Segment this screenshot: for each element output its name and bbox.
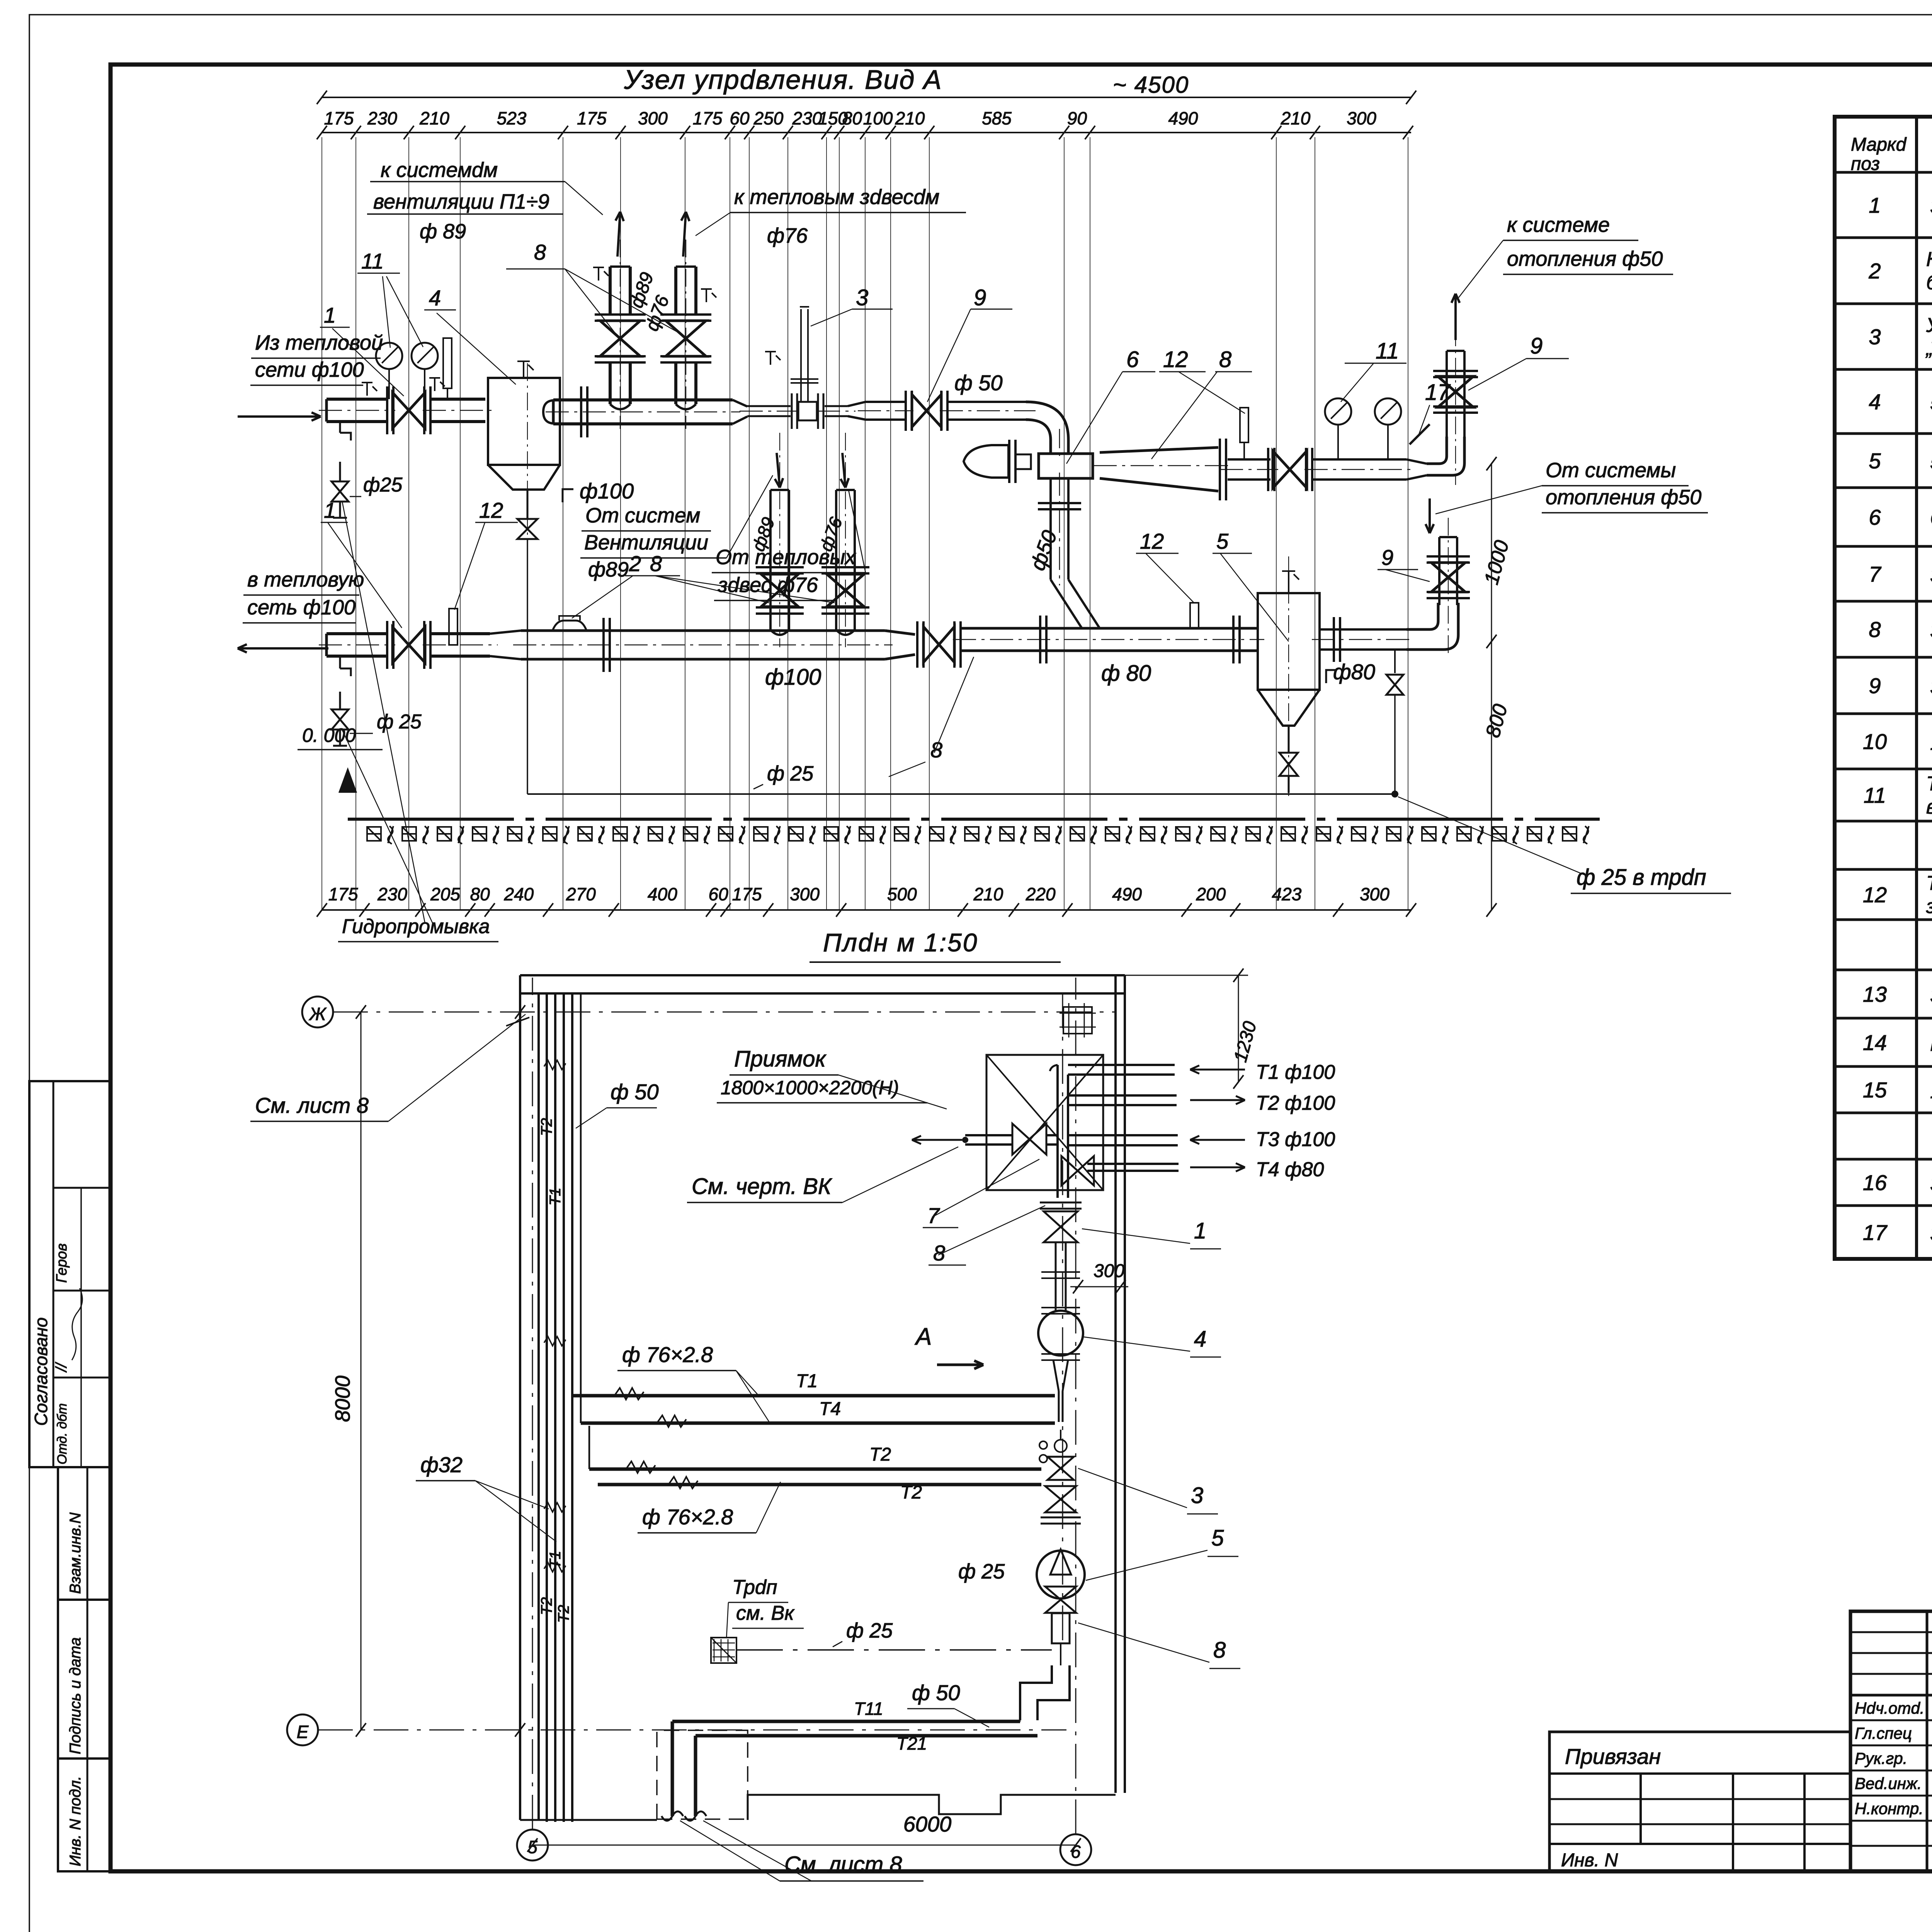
lower pipe left stub: [325, 634, 328, 656]
f25 drain line: [527, 793, 1395, 795]
svg-text:1: 1: [1194, 1218, 1206, 1243]
pipe with gauges: [1312, 458, 1406, 461]
regulator tee poz3: [791, 393, 793, 429]
svg-text:30ч 6бр: 30ч 6бр: [1930, 563, 1932, 587]
svg-text:175: 175: [732, 884, 762, 904]
svg-text:ф 50: ф 50: [611, 1080, 659, 1104]
valve poz9 upper: [905, 391, 907, 431]
thin pipe f50 after cone: [747, 405, 791, 407]
svg-text:15кч 18п: 15кч 18п: [1930, 731, 1932, 755]
svg-text:ф 80: ф 80: [1101, 661, 1151, 686]
svg-text:175: 175: [577, 108, 607, 128]
svg-text:1: 1: [324, 303, 336, 327]
upper dimension ticks and numbers: [317, 126, 327, 139]
lower thermometer pocket poz12: [449, 609, 457, 645]
T pipes horizontal T4: [581, 1422, 1055, 1425]
right elbow up: [1427, 437, 1447, 464]
svg-text:ГОСТ 3029-75: ГОСТ 3029-75: [1930, 1032, 1932, 1056]
svg-text:30ч 6бр: 30ч 6бр: [1930, 619, 1932, 643]
svg-text:Веd.инж.: Веd.инж.: [1855, 1774, 1922, 1793]
axis Zh line: [333, 1012, 1117, 1013]
svg-text:16: 16: [1863, 1170, 1887, 1195]
svg-text:Т2: Т2: [538, 1597, 555, 1615]
svg-text:11: 11: [1376, 338, 1399, 364]
svg-text:См. проект dвтомdтики: См. проект dвтомdтики: [1930, 506, 1932, 530]
svg-text:5.903 - 13 в.5: 5.903 - 13 в.5: [1930, 450, 1932, 474]
svg-text:Термометровый: Термометровый: [1926, 872, 1932, 895]
chain valve A poz7: [1012, 1124, 1046, 1155]
arrow up to heating system: [1454, 294, 1457, 340]
pipe after mud trap: [1320, 628, 1406, 631]
f25 line plan: [736, 1649, 1052, 1651]
thermometer dots: [1039, 1441, 1047, 1449]
gauge cocks: [366, 383, 368, 396]
svg-text:Т11: Т11: [854, 1699, 883, 1719]
mud trap 1 drain valve: [517, 519, 537, 539]
svg-text:Н.контр.: Н.контр.: [1855, 1799, 1923, 1818]
svg-text:230: 230: [367, 108, 397, 128]
svg-text:Т2: Т2: [555, 1605, 572, 1623]
chain cone below meter: [1053, 1360, 1068, 1391]
svg-text:см. Вк: см. Вк: [736, 1602, 795, 1624]
upper dimension chain line: [322, 132, 1411, 133]
dim 8000 vertical: [361, 1012, 362, 1730]
axis 5 circle: [517, 1830, 548, 1861]
regulator stem: [800, 309, 802, 402]
svg-text:Т1 ф100: Т1 ф100: [1256, 1061, 1335, 1083]
svg-text:См. черт. ВК: См. черт. ВК: [692, 1174, 832, 1199]
svg-text:ф80: ф80: [1333, 660, 1375, 684]
upper pipe flange pair left: [386, 386, 388, 434]
stamp column upper block: [29, 1081, 111, 1467]
plan elbow to T11/T21: [1020, 1665, 1052, 1720]
expander cone f50: [848, 402, 866, 420]
svg-text:отопления ф50: отопления ф50: [1507, 247, 1663, 270]
lower cone to f80: [885, 631, 915, 659]
chain top piping: [1056, 1065, 1059, 1198]
riser up 2 (to heat curtains): [674, 362, 677, 404]
stamp column lower block: [58, 1467, 111, 1871]
svg-text:300: 300: [1347, 108, 1376, 128]
svg-text:ф 25: ф 25: [958, 1560, 1005, 1583]
svg-text:ф32: ф32: [420, 1452, 463, 1477]
svg-text:17: 17: [1863, 1220, 1888, 1245]
svg-text:Ж: Ж: [309, 1004, 327, 1024]
svg-text:8: 8: [650, 551, 662, 576]
T pipes horizontal T1: [572, 1394, 1055, 1398]
mud trap 1 funnel: [488, 465, 560, 490]
svg-text:ф 89: ф 89: [420, 220, 466, 243]
svg-text:5: 5: [1216, 529, 1229, 553]
overall dim line: [322, 97, 1411, 98]
svg-text:1800×1000×2200(Н): 1800×1000×2200(Н): [721, 1077, 899, 1099]
svg-text:Т2 ф100: Т2 ф100: [1256, 1092, 1335, 1114]
chain filter poz5: [1037, 1551, 1085, 1599]
left outlet stub arrow: [912, 1139, 962, 1141]
T pipes horizontal T2a: [589, 1468, 1041, 1471]
svg-text://: //: [53, 1362, 70, 1373]
svg-text:Т2: Т2: [900, 1482, 922, 1503]
svg-text:7: 7: [1869, 562, 1881, 586]
svg-text:3к45.87. Уст-2: 3к45.87. Уст-2: [1930, 1221, 1932, 1245]
svg-text:200: 200: [1196, 884, 1226, 904]
svg-text:175: 175: [324, 108, 354, 128]
pit rectangle with cross: [986, 1055, 1103, 1190]
svg-text:к системе: к системе: [1507, 213, 1610, 236]
axis 6 line: [1075, 978, 1077, 1834]
svg-text:9: 9: [1381, 545, 1393, 570]
svg-text:100: 100: [863, 108, 893, 128]
svg-text:13: 13: [1863, 982, 1887, 1007]
svg-text:ф 50: ф 50: [912, 1680, 960, 1705]
svg-text:См. лист 8: См. лист 8: [255, 1093, 369, 1117]
bundle compensators: [544, 1060, 566, 1070]
room bottom wall: [539, 1795, 1116, 1820]
break squiggles: [662, 1811, 683, 1821]
svg-text:Т2: Т2: [538, 1118, 555, 1136]
svg-text:ф76: ф76: [767, 224, 808, 247]
svg-text:8: 8: [1219, 347, 1231, 372]
chain valve B poz8: [1061, 1156, 1094, 1185]
svg-text:250: 250: [753, 108, 784, 128]
floor line: [348, 818, 1600, 821]
gauge 3: [1325, 398, 1351, 425]
lower valve poz7: [916, 621, 918, 668]
svg-text:11: 11: [1864, 783, 1886, 808]
svg-text:7: 7: [927, 1203, 940, 1228]
svg-text:1: 1: [324, 498, 336, 522]
big expanding cone: [1100, 447, 1218, 491]
heating riser: [1446, 351, 1448, 439]
cone manifold to f50: [733, 400, 747, 424]
T11 T21 verticals down: [671, 1721, 674, 1816]
svg-text:вый зdвод: вый зdвод: [1926, 796, 1932, 818]
svg-text:Улdн- Уdенский з-d: Улdн- Уdенский з-d: [1926, 314, 1932, 337]
svg-text:12: 12: [479, 498, 503, 522]
svg-text:Узел упрdвления. Вид А: Узел упрdвления. Вид А: [624, 65, 942, 95]
svg-text:6000: 6000: [903, 1812, 952, 1836]
svg-text:Т4 ф80: Т4 ф80: [1256, 1158, 1324, 1181]
svg-text:зdвод г. Клин: зdвод г. Клин: [1926, 895, 1932, 918]
svg-text:Т1: Т1: [547, 1551, 564, 1569]
riser chain centerline: [1062, 993, 1063, 1642]
svg-text:Е: Е: [297, 1722, 309, 1742]
svg-text:ф89: ф89: [588, 558, 629, 581]
svg-text:ф 25: ф 25: [846, 1619, 893, 1642]
svg-text:8: 8: [1213, 1638, 1226, 1663]
svg-text:14: 14: [1863, 1031, 1887, 1055]
mud trap 2 poz5 body: [1258, 593, 1320, 690]
svg-text:Т4: Т4: [819, 1399, 841, 1419]
svg-text:60: 60: [730, 108, 750, 128]
drain valve under mid pipe: [1394, 651, 1396, 673]
svg-text:Т3 ф100: Т3 ф100: [1256, 1128, 1335, 1151]
T stubs to right T2: [1068, 1094, 1177, 1097]
regulator side cock: [770, 352, 771, 365]
extension lines: [321, 137, 322, 910]
svg-text:Плdн м 1:50: Плdн м 1:50: [823, 928, 978, 957]
svg-text:Взам.инв.N: Взам.инв.N: [67, 1512, 84, 1594]
svg-text:300: 300: [790, 884, 820, 904]
mid lower pipe f80: [961, 627, 1257, 630]
svg-text:210: 210: [973, 884, 1003, 904]
svg-text:423: 423: [1272, 884, 1302, 904]
svg-text:8: 8: [1869, 617, 1881, 642]
svg-text:сеть ф100: сеть ф100: [247, 596, 355, 619]
svg-text:2: 2: [1868, 259, 1881, 283]
svg-text:От системы: От системы: [1546, 459, 1676, 482]
manifold flange pair: [580, 386, 582, 437]
svg-text:2: 2: [629, 551, 641, 576]
arrow down from heating: [1429, 498, 1431, 533]
svg-text:~ 4500: ~ 4500: [1113, 72, 1189, 98]
room left wall: [519, 975, 521, 1820]
svg-text:к системdм: к системdм: [381, 158, 498, 182]
lower valve poz1b: [393, 627, 425, 663]
svg-text:От тепловых: От тепловых: [716, 546, 856, 569]
upper thermometer pocket: [443, 338, 452, 388]
chain flanges upper: [1040, 1202, 1082, 1204]
svg-text:80: 80: [842, 108, 862, 128]
poz17 union tick: [1410, 424, 1430, 444]
down riser 2 arrow: [842, 453, 845, 488]
svg-text:ф 76×2.8: ф 76×2.8: [622, 1342, 713, 1367]
svg-text:зdвес ф76: зdвес ф76: [718, 573, 818, 597]
svg-text:ф 25 в трdп: ф 25 в трdп: [1577, 865, 1706, 890]
svg-text:585: 585: [982, 108, 1012, 128]
svg-text:Маркd: Маркd: [1851, 134, 1907, 155]
svg-text:вентиляции П1÷9: вентиляции П1÷9: [373, 190, 549, 213]
mud trap 2 funnel: [1258, 690, 1320, 726]
chain pipe to meter: [1055, 1242, 1057, 1312]
svg-text:4: 4: [1869, 389, 1881, 414]
svg-text:300: 300: [1360, 884, 1389, 904]
privyazan table: [1549, 1732, 1850, 1871]
svg-text:4: 4: [429, 286, 441, 310]
svg-text:5: 5: [1869, 449, 1881, 473]
svg-text:ф 25: ф 25: [377, 711, 422, 733]
T pipes horizontal T2b: [598, 1483, 1041, 1486]
water meter circle poz4: [1038, 1311, 1083, 1355]
T stubs to right T3: [1068, 1134, 1178, 1136]
svg-text:Вентиляции: Вентиляции: [584, 531, 708, 554]
drain pipe to f25 line: [527, 539, 528, 794]
svg-text:60: 60: [709, 884, 729, 904]
svg-text:8000: 8000: [331, 1376, 354, 1422]
svg-text:Т21: Т21: [896, 1733, 927, 1753]
upper valve poz1: [393, 393, 425, 428]
svg-text:Приямок: Приямок: [734, 1046, 827, 1071]
chain valve poz1: [1044, 1211, 1078, 1242]
svg-text:30ч 6бр: 30ч 6бр: [1930, 675, 1932, 699]
lower flange pair left: [386, 621, 388, 669]
svg-text:5: 5: [1211, 1526, 1224, 1551]
svg-text:205: 205: [430, 884, 460, 904]
svg-text:А: А: [914, 1323, 932, 1350]
svg-text:в тепловую: в тепловую: [247, 568, 364, 591]
regulator box poz6: [1039, 454, 1093, 478]
svg-text:90: 90: [1067, 108, 1087, 128]
arrow out return: [238, 647, 328, 650]
svg-text:Инв. N: Инв. N: [1561, 1850, 1618, 1871]
floor hatch marks: [367, 827, 381, 841]
upper pipe segment 2: [430, 398, 485, 401]
electronic regulator body: [964, 445, 1009, 478]
svg-text:4: 4: [1194, 1327, 1206, 1352]
svg-text:5.903 - 13 в.5: 5.903 - 13 в.5: [1930, 391, 1932, 415]
lower drain valve f25: [339, 656, 341, 668]
upper pipe left stub: [325, 399, 328, 422]
svg-text:12: 12: [1163, 347, 1188, 372]
svg-text:к тепловым зdвесdм: к тепловым зdвесdм: [734, 185, 939, 209]
svg-text:ф 50: ф 50: [954, 371, 1003, 395]
dashed future rect: [657, 1730, 748, 1819]
svg-text:30с 76 нжм: 30с 76 нжм: [1930, 194, 1932, 218]
lower pipe long run f100: [521, 629, 885, 632]
T stubs to right T1: [1068, 1064, 1175, 1066]
svg-text:80: 80: [470, 884, 490, 904]
thermometer pocket mid: [1240, 408, 1248, 442]
svg-text:490: 490: [1112, 884, 1142, 904]
svg-text:240: 240: [504, 884, 534, 904]
arrow into supply: [238, 415, 321, 418]
pipe f50 run: [866, 401, 906, 403]
svg-text:523: 523: [497, 108, 527, 128]
svg-text:220: 220: [1026, 884, 1056, 904]
pipe bundle left wall: [546, 993, 548, 1822]
svg-text:8: 8: [534, 240, 546, 264]
pipe f80 mid: [1228, 458, 1270, 461]
signature squiggle upper: [72, 1288, 82, 1360]
mud trap 1 body poz4: [488, 378, 560, 465]
thin pipe to expander: [825, 405, 848, 407]
cone to elbow right: [1406, 459, 1427, 480]
svg-text:Привязан: Привязан: [1565, 1744, 1661, 1769]
svg-text:400: 400: [648, 884, 677, 904]
svg-text:ф 76×2.8: ф 76×2.8: [642, 1505, 733, 1529]
svg-text:490: 490: [1168, 108, 1198, 128]
svg-text:отопления ф50: отопления ф50: [1546, 486, 1701, 509]
svg-text:1: 1: [1869, 193, 1881, 218]
svg-text:15: 15: [1863, 1078, 1887, 1102]
svg-text:Трdп: Трdп: [732, 1576, 777, 1599]
svg-text:Инв. N подл.: Инв. N подл.: [67, 1776, 84, 1866]
svg-text:Гл.спец: Гл.спец: [1855, 1724, 1912, 1742]
riser up 2 arrow: [683, 212, 686, 257]
T11 T21 horizontal pipes: [672, 1720, 1020, 1723]
svg-text:Из тепловой: Из тепловой: [255, 331, 383, 354]
svg-text:Т2: Т2: [869, 1444, 891, 1465]
heating return riser: [1438, 537, 1440, 605]
riser 2 vent cock: [706, 289, 707, 302]
riser centerlines dashdot: [620, 240, 621, 429]
svg-text:210: 210: [895, 108, 925, 128]
svg-text:210: 210: [419, 108, 449, 128]
svg-text:12: 12: [1863, 883, 1887, 907]
lower pipe segment: [430, 632, 490, 635]
T stubs to right T4: [1087, 1163, 1179, 1165]
down riser 2 from curtains: [835, 490, 837, 630]
riser 1 vent cock: [598, 267, 599, 281]
lower dimension ticks and numbers: [317, 903, 327, 917]
room top wall: [520, 974, 1125, 976]
manifold pipe: [552, 400, 555, 423]
down riser 1 arrow: [777, 453, 780, 488]
mud trap 2 top tap: [1288, 571, 1289, 593]
svg-text:230: 230: [792, 108, 822, 128]
axis 6 circle: [1060, 1834, 1091, 1865]
svg-text:Подпись и дата: Подпись и дата: [67, 1637, 84, 1754]
svg-text:Гидропромывка: Гидропромывка: [342, 915, 490, 938]
svg-text:300: 300: [1094, 1261, 1124, 1281]
svg-text:Геров: Геров: [54, 1243, 70, 1283]
mud trap 1 top tap: [523, 361, 524, 378]
svg-text:9: 9: [974, 285, 986, 310]
svg-text:Т1: Т1: [796, 1371, 818, 1391]
svg-text:Отд. дбт: Отд. дбт: [55, 1403, 70, 1464]
svg-text:3: 3: [1191, 1483, 1203, 1508]
axis Zh circle: [302, 997, 333, 1027]
svg-text:9: 9: [1869, 673, 1881, 698]
svg-text:300: 300: [638, 108, 668, 128]
svg-text:сети ф100: сети ф100: [255, 358, 364, 381]
axis 5 line: [532, 978, 533, 1830]
spec table row lines: [1835, 171, 1932, 174]
title block signature grid: [1926, 1611, 1929, 1871]
chain valve lower: [1045, 1486, 1076, 1512]
room right wall: [1114, 975, 1117, 1793]
svg-text:Рук.гр.: Рук.гр.: [1855, 1749, 1907, 1767]
svg-text:ф25: ф25: [363, 474, 403, 496]
spec table outer: [1835, 117, 1932, 1259]
svg-text:Согласовано: Согласовано: [31, 1317, 51, 1426]
svg-text:230: 230: [377, 884, 407, 904]
trap square: [711, 1638, 736, 1663]
title block outline: [1850, 1611, 1932, 1871]
svg-text:ф 25: ф 25: [767, 762, 814, 785]
lower dimension chain line: [322, 909, 1411, 911]
svg-text:270: 270: [566, 884, 596, 904]
svg-text:9: 9: [1530, 333, 1543, 359]
svg-text:3к4-146-75: 3к4-146-75: [1930, 1172, 1932, 1196]
upper elbow down: [1026, 402, 1068, 454]
svg-text:ф100: ф100: [580, 479, 634, 503]
svg-text:Томский мdнометрd-: Томский мdнометрd-: [1926, 773, 1932, 795]
pressure gauge 1: [376, 343, 402, 369]
svg-text:3: 3: [856, 285, 868, 310]
water meter bump poz2: [553, 621, 587, 631]
svg-text:3к4- 46-76: 3к4- 46-76: [1930, 983, 1932, 1007]
svg-text:210: 210: [1281, 108, 1311, 128]
chain bottom block: [1052, 1613, 1070, 1643]
svg-text:8: 8: [930, 738, 942, 762]
mud trap 2 drain: [1288, 726, 1290, 753]
svg-text:боростроительный з-d: боростроительный з-d: [1926, 272, 1932, 294]
lower expander cone: [490, 631, 521, 659]
axis E circle: [287, 1714, 318, 1745]
right elbow up lower: [1406, 603, 1438, 629]
cone centerline: [1094, 465, 1231, 466]
down riser 1 from ventilation: [769, 490, 772, 630]
svg-text:3: 3: [1869, 325, 1881, 349]
f50 connection from regulator: [1049, 478, 1052, 580]
mud trap 1 drain stem: [527, 490, 529, 519]
svg-text:11: 11: [361, 249, 384, 273]
svg-text:6: 6: [1126, 347, 1139, 372]
thermometer pocket on mid pipe: [1190, 603, 1199, 628]
svg-text:6: 6: [1869, 505, 1881, 529]
svg-text:175: 175: [693, 108, 723, 128]
